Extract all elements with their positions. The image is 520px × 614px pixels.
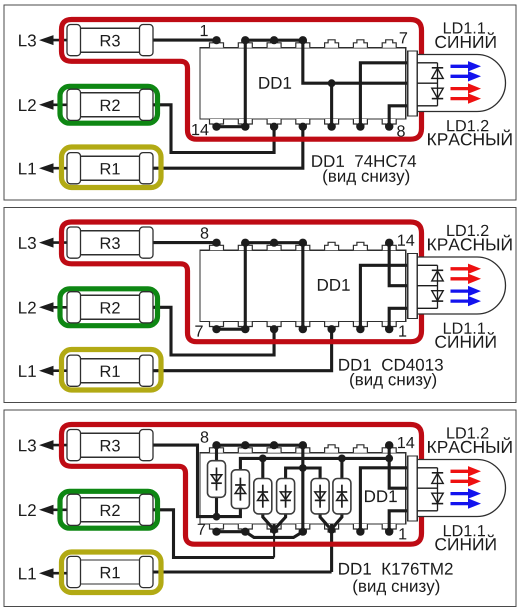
resistor R2 [74, 498, 147, 522]
yellow wire loop (around R1) [62, 147, 162, 188]
pin label 14 [398, 235, 414, 246]
pin label 7 [400, 32, 407, 43]
wire pins 7-6 [217, 530, 246, 533]
wire R1 to pin 3 [153, 329, 332, 371]
protection diode VD C [254, 479, 272, 514]
LED internal wiring [417, 264, 437, 266]
light arrows bottom pair [451, 492, 469, 495]
pin label 14 [398, 437, 414, 448]
wire R2 to pin 5 [153, 307, 274, 355]
pin label 8 [201, 431, 209, 443]
label LD1.1 [444, 525, 485, 536]
LED LD1 bulb [417, 55, 505, 112]
resistor R1 [74, 359, 147, 383]
red wire loop (to R3) [62, 425, 422, 545]
LED chip diode 1 (top) [432, 269, 443, 271]
light arrows top pair [451, 267, 469, 270]
light arrows bottom pair [451, 289, 469, 292]
IC DD1 package body [200, 453, 406, 524]
LED internal wiring [417, 62, 437, 64]
IC DD1 pin tabs [210, 242, 224, 250]
light arrows top pair [451, 65, 469, 68]
node L2 label and arrow [19, 302, 36, 314]
wire R1 to pin 11 [153, 127, 303, 169]
wire diodes VD D and VD E tops to pin 11 column [286, 468, 321, 479]
wire pin 1 to LED bottom [389, 511, 407, 532]
IC DD1 package body [200, 250, 406, 321]
pin label 1 [399, 528, 406, 539]
wire rail pins 2-3-4 [245, 39, 303, 42]
label LD1.2 [447, 427, 488, 438]
LED chip diode 1 (top) [432, 472, 443, 474]
red wire loop (to R3) [62, 222, 422, 342]
wire pin 10 up [330, 83, 333, 127]
IC name DD1 [365, 490, 397, 502]
wire R3 detour to diode junction [153, 445, 240, 516]
label LD1.2 [447, 120, 488, 131]
wire R1 loop [153, 570, 332, 573]
pin label 7 [195, 326, 202, 337]
wire diode VD F top [340, 458, 343, 478]
LED chip diode 2 (bottom) [432, 291, 443, 301]
pin label 14 [192, 124, 208, 135]
junction pin10/pin4 wire [328, 79, 336, 87]
label LD1.1 [444, 22, 485, 33]
green wire loop (around R2) [60, 491, 158, 528]
wire pin 6 to pin 4 bypass [245, 532, 303, 538]
yellow wire loop (around R1) [62, 552, 162, 593]
wire pin 2 to pin 13 [244, 40, 247, 127]
wire pin 4 to LED middle [303, 40, 408, 83]
IC name DD1 [259, 77, 291, 89]
resistor R3 [74, 231, 147, 255]
junction dot D-E bar at pin 11 column [299, 464, 307, 472]
green wire loop (around R2) [60, 289, 158, 326]
LED chip diode 1 (top) [432, 67, 443, 69]
caption DD1 K176TM2 [339, 563, 453, 575]
wires diodes VD E and VD F to pin 3 [320, 512, 329, 527]
wire pin 11 to pin 4 [301, 243, 304, 330]
LED LD1 connector [408, 456, 418, 521]
junction dots top pins 8-11 and 14 [212, 239, 220, 247]
LED chip diode 2 (bottom) [432, 88, 443, 98]
inner rail diodes B C F to pin 14 column [240, 458, 389, 470]
junction dots top pins 8-11 and 14 [212, 441, 220, 449]
wire diode VD C top [261, 458, 264, 478]
node L3 label and arrow [19, 237, 36, 249]
wire rail pins 8-11 [217, 444, 303, 447]
wire pin 14 to LED middle [389, 445, 407, 488]
node L1 label and arrow [19, 163, 36, 175]
panel 1 border [4, 5, 516, 200]
wire pin 14 to LED middle [389, 243, 407, 286]
red wire loop (to R3) [62, 20, 422, 140]
wire pin 5 to R2 wire [273, 532, 275, 558]
protection diode VD F [333, 479, 351, 514]
junction dot inner rail at C [259, 455, 267, 463]
wire pins 14-13 [217, 125, 246, 128]
resistor R2 [74, 93, 147, 117]
resistor R2 [74, 295, 147, 319]
junction dot pin 5 [270, 526, 277, 533]
wire pin 2 to LED top [360, 265, 407, 329]
node L2 label and arrow [19, 504, 36, 516]
pin label 8 [201, 227, 209, 239]
IC DD1 package body [200, 48, 406, 119]
protection diode VD E [311, 479, 329, 514]
wire rail pins 9-10-11 [245, 241, 303, 244]
LED LD1 connector [408, 254, 418, 319]
node L1 label and arrow [19, 365, 36, 377]
protection diode VD D [277, 479, 295, 514]
panel 3 border [4, 410, 516, 607]
wire R2 to pin 12 [153, 105, 274, 153]
resistor R3 [74, 433, 147, 457]
pin label 1 [201, 25, 208, 36]
IC name DD1 [318, 279, 350, 291]
wire R3 to pin 8 [153, 241, 217, 244]
pin label 8 [397, 125, 405, 137]
LED LD1 bulb [417, 460, 505, 517]
junction dot inner rail at F [338, 455, 346, 463]
wire pin 3 to R1 wire [330, 532, 333, 572]
wire pins 7-6 [217, 328, 246, 331]
wire R2 loop [153, 510, 274, 558]
junction dot inner rail at pin 14 column [385, 455, 393, 463]
pin label 1 [399, 326, 406, 337]
node L3 label and arrow [19, 34, 36, 46]
caption DD1 74HC74 [312, 155, 416, 167]
pin label 7 [198, 524, 205, 535]
caption DD1 CD4013 [339, 359, 443, 371]
yellow wire loop (around R1) [62, 350, 162, 391]
wire diode VD A to junction [215, 497, 218, 516]
resistor R1 [74, 156, 147, 180]
junction dots bottom pins 14-8 [212, 123, 220, 131]
junction dot pin 3 [328, 526, 335, 533]
wire pin 1 to LED bottom [389, 308, 407, 329]
wire pin 8 to LED bottom [389, 106, 407, 127]
protection diode VD B [231, 470, 249, 509]
wire pin 9 to pin 6 [244, 243, 247, 330]
wire pin 11 to pin 4 [301, 445, 304, 532]
wires diodes VD C and VD D to pin 5 [263, 512, 272, 527]
wire pin 9 to LED top [360, 63, 407, 127]
IC DD1 pin tabs [210, 40, 224, 48]
protection diode VD A [208, 461, 226, 498]
resistor R1 [74, 560, 147, 584]
panel 2 border [4, 208, 516, 403]
junction dots bottom pins 7-1 [212, 325, 220, 333]
wire R3 to pin 1 [153, 39, 217, 42]
LED chip diode 2 (bottom) [432, 493, 443, 503]
label LD1.2 [447, 225, 488, 236]
node L1 label and arrow [19, 568, 36, 580]
junction dots bottom pins [212, 528, 220, 536]
IC DD1 pin tabs [210, 445, 224, 453]
light arrows top pair [451, 470, 469, 473]
resistor R3 [74, 28, 147, 52]
wire pin 2 to LED top [360, 468, 407, 532]
LED internal wiring [417, 467, 437, 469]
junction dots top pins 1-4 [212, 36, 220, 44]
node L3 label and arrow [19, 439, 36, 451]
wire pin 8 to diode VD A [215, 445, 218, 461]
green wire loop (around R2) [60, 86, 158, 123]
node L2 label and arrow [19, 99, 36, 111]
light arrows bottom pair [451, 87, 469, 90]
junction dot diode A bottom [213, 513, 221, 521]
LED LD1 bulb [417, 257, 505, 314]
LED LD1 connector [408, 51, 418, 116]
label LD1.1 [444, 323, 485, 334]
